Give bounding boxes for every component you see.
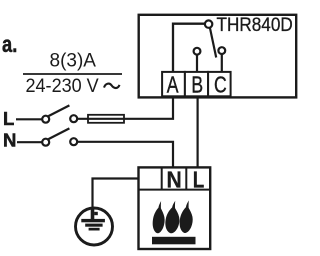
terminal box B [185,72,208,96]
flame 2 [165,200,181,234]
wire N to switch S2 [17,141,42,143]
wire terminal A to switch pivot [173,24,205,73]
svg-text:8(3)A: 8(3)A [50,51,97,72]
heater terminal row line [139,189,211,191]
switch S2 contact left [42,139,49,146]
heater box [139,167,211,249]
svg-text:L: L [3,108,14,129]
flame 3 [179,200,194,234]
switch pivot contact [205,20,212,27]
switch S1 arm [48,105,69,116]
heater terminal divider 2 [185,167,187,189]
earth bar 1 [81,219,105,222]
wire L to switch S1 [16,118,42,120]
svg-text:C: C [214,72,227,98]
terminal box A [162,72,185,96]
switch S1 contact left [42,116,49,123]
thermostat U1 box [139,15,297,98]
terminal box C [208,72,231,96]
switch S2 contact right [70,138,77,145]
earth stem [91,207,95,219]
earth bar 3 [89,228,100,231]
svg-text:a.: a. [2,32,17,58]
svg-text:B: B [191,72,203,98]
stem contact B [196,55,198,72]
switch S2 arm [48,128,69,139]
ground wire [93,179,139,209]
flame 1 [152,200,166,233]
svg-text:THR840D: THR840D [217,13,293,35]
fuse F1 [88,115,124,123]
svg-text:L: L [193,168,205,193]
contact circle above C [218,47,225,54]
earth stem nub [94,212,98,215]
svg-text:24-230 V: 24-230 V [26,75,100,97]
switch S1 contact right [70,115,77,122]
heating element bar [152,237,196,245]
ground circle [76,208,113,245]
svg-text:N: N [3,130,16,151]
fraction line [23,73,122,75]
svg-text:N: N [166,167,181,193]
wire L from switch through fuse to terminal A [77,96,173,119]
heater terminal divider 1 [161,167,163,189]
earth bar 2 [85,224,102,227]
contact circle above B [194,48,201,55]
wire terminal B to heater terminal L [197,96,199,167]
thermostat switch arm [210,28,216,58]
wire N to heater terminal N [77,142,173,167]
stem contact C [221,54,223,72]
AC tilde symbol [104,84,120,88]
svg-text:A: A [167,72,179,98]
